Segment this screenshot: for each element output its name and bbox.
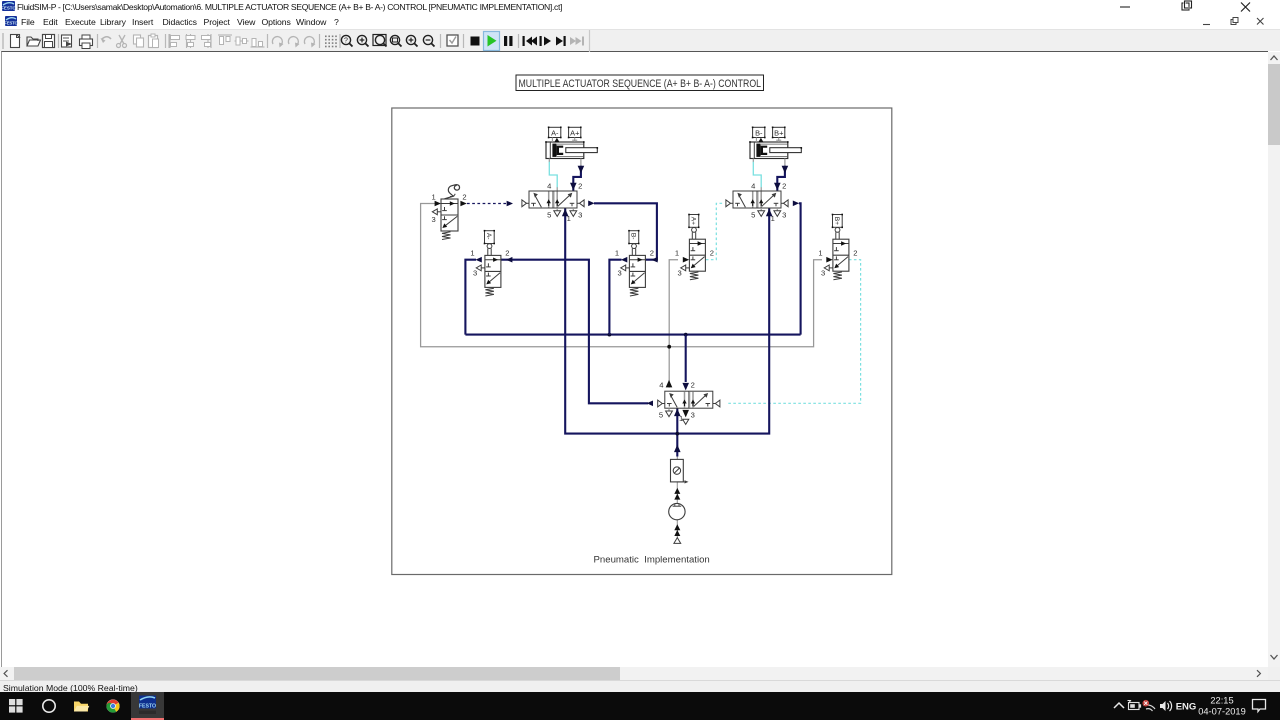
svg-text:2: 2	[853, 249, 857, 258]
svg-text:3: 3	[691, 411, 695, 420]
svg-text:5: 5	[659, 411, 663, 420]
svg-text:3: 3	[617, 269, 621, 278]
svg-text:A+: A+	[570, 128, 579, 137]
svg-text:B-: B-	[755, 128, 763, 137]
svg-text:?: ?	[344, 38, 348, 45]
svg-text:MULTIPLE ACTUATOR SEQUENCE (A+: MULTIPLE ACTUATOR SEQUENCE (A+ B+ B- A-)…	[519, 78, 762, 90]
svg-text:22:15: 22:15	[1210, 696, 1233, 706]
svg-text:1: 1	[675, 249, 679, 258]
svg-text:ENG: ENG	[1176, 702, 1197, 713]
svg-text:1: 1	[470, 249, 474, 258]
svg-text:2: 2	[578, 181, 582, 190]
svg-text:2: 2	[650, 249, 654, 258]
svg-text:3: 3	[473, 269, 477, 278]
svg-text:A+: A+	[690, 217, 697, 225]
svg-text:A-: A-	[485, 233, 492, 240]
svg-text:4: 4	[547, 181, 551, 190]
svg-text:A-: A-	[551, 128, 559, 137]
svg-text:2: 2	[710, 249, 714, 258]
svg-text:B+: B+	[833, 217, 840, 225]
svg-text:4: 4	[751, 181, 755, 190]
svg-text:Pneumatic Implementation: Pneumatic Implementation	[594, 555, 710, 566]
svg-text:1: 1	[679, 414, 683, 423]
svg-text:3: 3	[782, 210, 786, 219]
svg-text:FESTO: FESTO	[139, 704, 156, 710]
svg-text:2: 2	[505, 249, 509, 258]
svg-text:1: 1	[771, 214, 775, 223]
svg-text:B+: B+	[774, 128, 783, 137]
svg-text:3: 3	[578, 210, 582, 219]
svg-text:2: 2	[782, 181, 786, 190]
svg-text:2: 2	[691, 381, 695, 390]
svg-text:FESTO: FESTO	[5, 20, 18, 25]
svg-text:04-07-2019: 04-07-2019	[1198, 707, 1246, 717]
svg-text:1: 1	[431, 192, 435, 201]
svg-text:4: 4	[659, 381, 663, 390]
svg-text:5: 5	[547, 210, 551, 219]
svg-text:3: 3	[431, 215, 435, 224]
svg-text:1: 1	[615, 249, 619, 258]
svg-text:3: 3	[821, 269, 825, 278]
svg-text:1: 1	[567, 214, 571, 223]
svg-text:1: 1	[818, 249, 822, 258]
svg-text:3: 3	[677, 269, 681, 278]
svg-text:B-: B-	[630, 233, 637, 240]
svg-text:2: 2	[462, 192, 466, 201]
svg-text:5: 5	[751, 210, 755, 219]
svg-text:FESTO: FESTO	[2, 6, 16, 11]
